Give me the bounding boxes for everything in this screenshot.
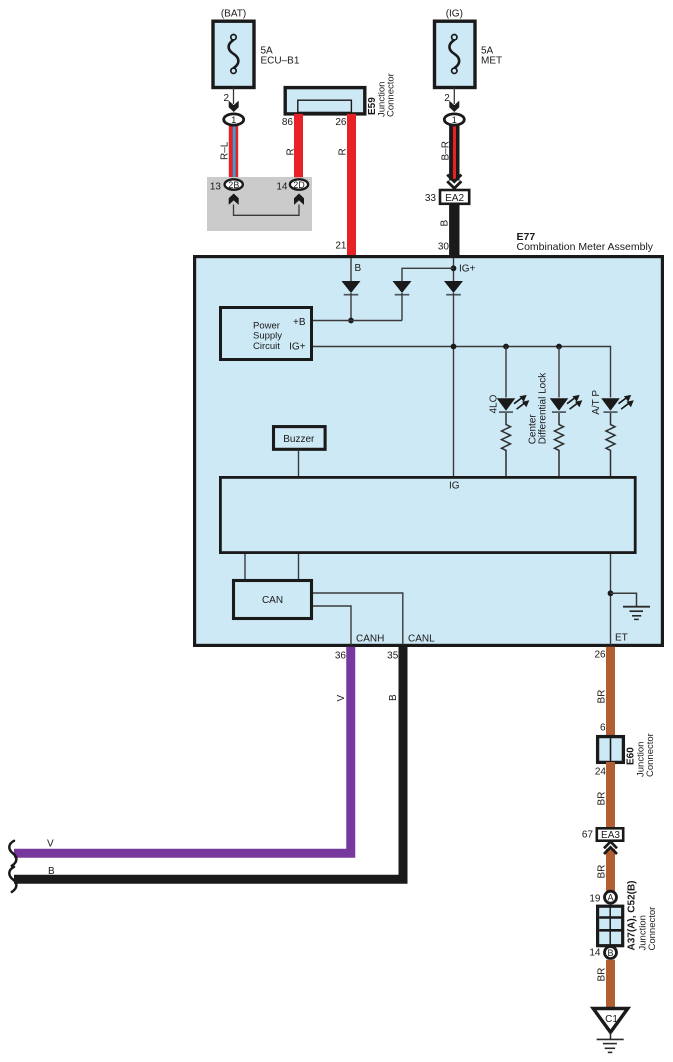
ground (internal, E77) [611,593,651,619]
svg-text:Buzzer: Buzzer [283,434,315,445]
arrow into terminal 1 [229,101,239,112]
svg-text:4LO: 4LO [489,394,500,413]
svg-text:CANH: CANH [356,634,384,645]
diode D1 [342,281,361,295]
wire diode D2 top branch [402,268,454,281]
svg-text:14: 14 [276,182,288,193]
svg-text:EA2: EA2 [445,193,464,204]
wire branch CDL [558,347,560,398]
wire +B rail [313,320,402,322]
svg-text:Combination Meter Assembly: Combination Meter Assembly [517,241,654,253]
IG block (inner rectangle) [220,477,635,552]
svg-text:CANL: CANL [408,634,435,645]
svg-text:86: 86 [282,117,294,128]
svg-text:19: 19 [589,894,601,905]
svg-text:Connector: Connector [385,73,396,117]
svg-text:(IG): (IG) [446,9,463,20]
wire fuse1 to terminal 1 [233,88,235,105]
svg-text:MET: MET [481,56,502,67]
terminal 1 (IG circuit) [444,114,464,125]
wire V (CANH, purple) [14,647,351,853]
fuse ECU-B1 (BAT) [213,21,254,87]
svg-text:BR: BR [597,968,608,982]
wire BR seg4 (terminal B to ground C1) [606,960,615,1010]
terminal 1 (BAT circuit) [224,114,244,125]
wire D2 to +B rail [401,293,403,321]
resistor A/T P [606,413,615,477]
wire D1 to +B rail [350,293,352,321]
svg-text:6: 6 [600,723,606,734]
svg-text:30: 30 [438,242,450,253]
arrow to EA2 (double chevron) [447,175,461,189]
svg-text:BR: BR [597,865,608,879]
svg-text:Differential Lock: Differential Lock [538,372,549,445]
wire D3 to IG block [453,293,455,477]
arrow up at 2D [294,194,304,205]
svg-text:V: V [47,839,54,850]
wire BR seg1 (ET to E60) [606,647,615,736]
svg-text:R: R [338,148,349,155]
svg-text:33: 33 [425,193,437,204]
svg-text:2B: 2B [228,180,239,190]
ground point C1 [593,1009,628,1033]
LED 4LO [497,395,530,412]
junction IG+ rail at 4LO [503,344,509,350]
svg-text:Circuit: Circuit [253,341,280,352]
wire IG+ rail [313,347,611,398]
svg-text:A: A [607,893,613,903]
svg-text:26: 26 [335,117,347,128]
wire IG block to CAN (right) [298,554,300,579]
svg-text:B: B [388,694,399,701]
svg-text:2D: 2D [293,180,305,190]
wire B internal (pin 21 to diode) [350,258,352,282]
junction IG+ rail at D3 [451,344,457,350]
svg-text:1: 1 [452,115,457,125]
svg-text:2: 2 [223,93,229,104]
power supply circuit block [221,308,312,360]
svg-text:A/T P: A/T P [591,390,602,415]
terminal B [605,947,617,959]
junction ET node [608,590,614,596]
wire fuse2 to terminal 1 [453,88,455,105]
svg-text:Connector: Connector [647,907,658,951]
wire R (E59 pin 86 to 2D) [294,114,303,177]
svg-text:V: V [336,695,347,702]
wire B (EA2 to E77 pin 30) [449,204,459,255]
wire CANL stub [313,593,403,645]
svg-text:(BAT): (BAT) [221,9,246,20]
arrow up at 2B [229,194,239,205]
resistor 4LO [502,413,511,477]
diode D2 [393,281,412,295]
svg-text:24: 24 [595,767,607,778]
terminal A [605,891,617,903]
svg-text:BR: BR [597,792,608,806]
connector EA2 [440,190,469,204]
wire IG block to CAN (left) [244,554,246,579]
wire R-L [229,122,238,177]
terminal 2D [290,179,308,190]
connector EA3 [597,828,623,841]
svg-text:ET: ET [615,633,628,644]
svg-text:B: B [440,220,451,227]
resistor CDL [555,413,564,477]
LED Center Differential Lock [550,395,583,412]
wire ET internal [610,554,612,645]
svg-text:IG: IG [449,481,460,492]
wire CANH stub [313,606,351,645]
ground symbol (C1) [597,1032,624,1052]
arrow from EA3 (double chevron up) [604,842,617,854]
svg-text:CAN: CAN [262,595,283,606]
junction connector E59 [285,88,365,114]
svg-text:13: 13 [210,182,222,193]
svg-text:EA3: EA3 [601,830,620,841]
arrow into terminal 1 (IG) [449,101,459,112]
svg-text:B: B [607,948,613,958]
buzzer [274,427,326,450]
LED A/T P [601,395,634,412]
svg-text:21: 21 [335,241,347,252]
wire buzzer to IG block [298,450,300,477]
svg-text:B: B [355,263,362,274]
svg-text:R–L: R–L [220,141,231,160]
svg-text:R: R [286,148,297,155]
svg-text:B: B [48,866,55,877]
svg-text:36: 36 [335,651,347,662]
svg-text:14: 14 [589,947,601,958]
svg-text:IG+: IG+ [459,264,476,275]
svg-text:35: 35 [387,651,399,662]
shield block (gray) [207,177,312,231]
junction IG+ rail at CDL [556,344,562,350]
svg-text:C1: C1 [605,1014,618,1025]
break squiggle (B wire) [9,867,16,892]
svg-text:+B: +B [293,317,306,328]
svg-text:IG+: IG+ [289,342,306,353]
wire BR seg3 (EA3 to terminal A) [606,849,615,892]
wire branch 4LO [505,347,507,398]
diode D3 [444,281,463,295]
CAN block [234,581,312,619]
wire IG+ internal (pin 30 to diode) [453,258,455,282]
terminal 2B [225,179,243,190]
combination meter assembly E77 box [195,257,663,646]
svg-text:BR: BR [597,690,608,704]
svg-text:1: 1 [231,115,236,125]
junction +B node [348,318,354,324]
junction IG+ node [451,265,457,271]
wire BR seg2 (E60 to EA3) [606,762,615,828]
svg-text:26: 26 [594,650,606,661]
svg-text:A37(A), C52(B): A37(A), C52(B) [627,880,638,950]
break squiggle (V wire) [9,841,16,866]
wire B (CANL, black) [14,645,403,879]
svg-text:B–R: B–R [441,141,452,160]
svg-text:ECU–B1: ECU–B1 [261,56,300,67]
wire linking 2B and 2D [234,205,300,216]
wire B-R [449,122,459,181]
junction connector A37(A) C52(B) [598,906,623,946]
wire R (E59 pin 26 to E77 pin 21) [347,114,356,255]
svg-text:Connector: Connector [645,733,656,777]
junction connector E60 [598,737,624,763]
svg-text:67: 67 [582,830,594,841]
fuse MET (IG) [435,21,476,87]
